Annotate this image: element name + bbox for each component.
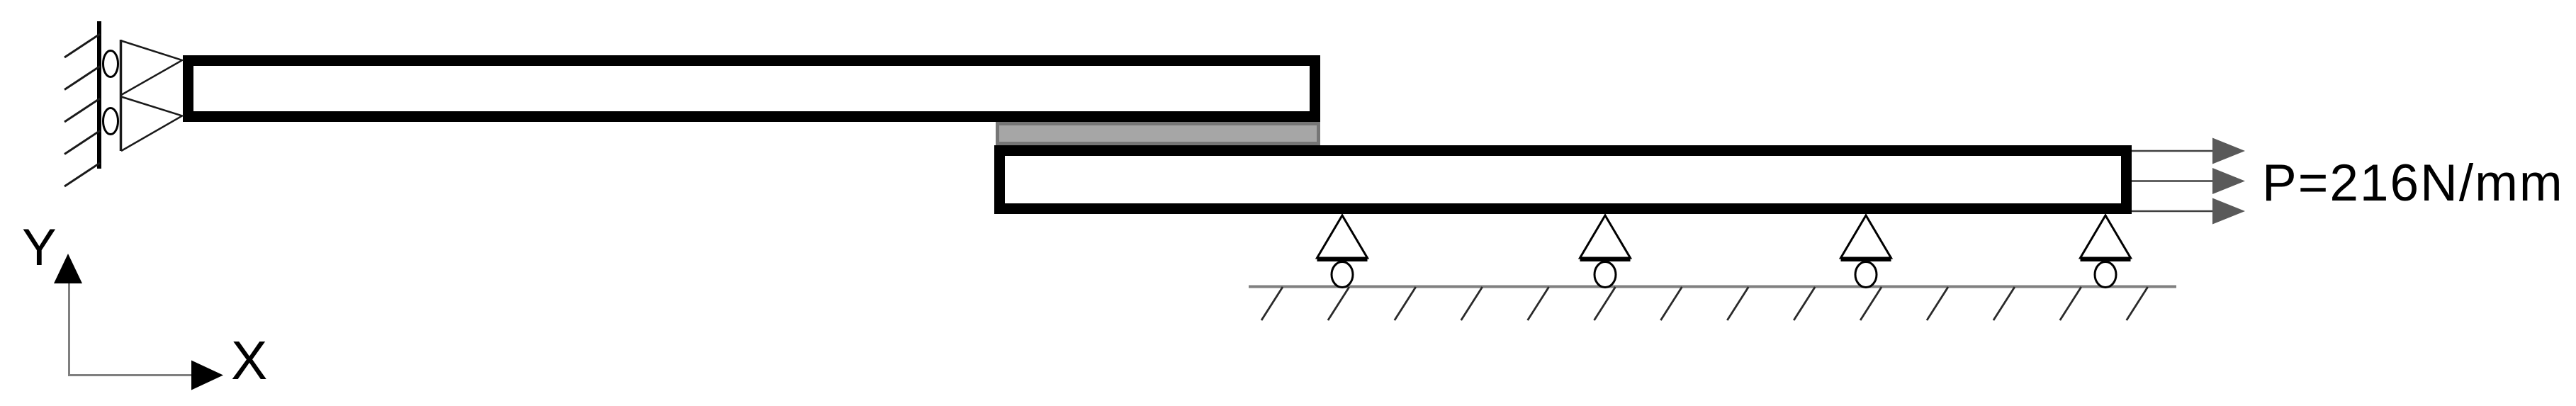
roller support 3 [1841,215,1891,288]
svg-text:P=216N/mm: P=216N/mm [2262,154,2564,212]
roller ellipse upper [103,51,118,77]
support triangle lower [121,97,182,152]
X axis arrowhead [191,361,223,390]
roller support 1 [1317,215,1368,288]
lower adherend beam [1000,151,2127,209]
roller ellipse lower [103,108,118,135]
roller support 4 [2081,215,2131,288]
support base line [120,40,123,151]
wall line of fixed support [97,21,101,169]
wall hatch 2 [64,67,100,90]
support triangle upper [121,41,182,96]
load arrow head 1 [2212,138,2245,164]
X axis line [68,374,193,376]
roller support 2 [1580,215,1631,288]
wall hatch 1 [64,34,100,57]
Y axis line [68,283,70,376]
load arrow line 3 [2132,210,2215,213]
load arrow head 2 [2212,168,2245,194]
load arrow line 1 [2132,150,2215,152]
wall hatch 4 [64,131,100,154]
ground line [1249,286,2176,288]
svg-text:X: X [231,330,267,391]
wall hatch 3 [64,98,100,122]
Y axis arrowhead [54,254,82,283]
svg-text:Y: Y [22,219,57,276]
load arrow line 2 [2132,180,2215,182]
adhesive layer (gray strip) [998,124,1319,144]
wall hatch 5 [64,163,100,186]
ground hatches [1261,287,2148,320]
load arrow head 3 [2212,198,2245,225]
upper adherend beam [189,61,1315,117]
